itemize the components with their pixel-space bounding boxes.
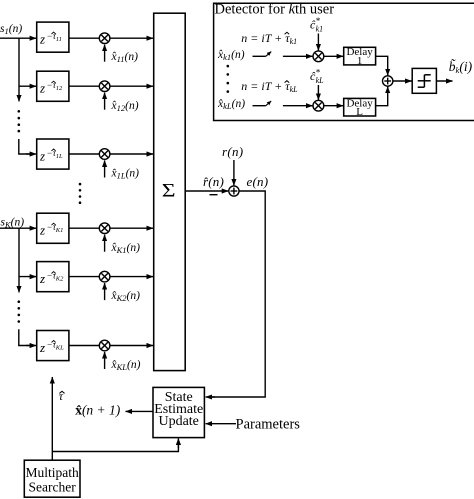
- Delay L box: [344, 98, 376, 116]
- wire multiplier to Delay 1 box: [324, 55, 343, 57]
- multiplier (circle-cross) row 12: [99, 81, 110, 92]
- svg-text:Update: Update: [158, 414, 198, 429]
- svg-text:z: z: [39, 340, 45, 355]
- wire multiplier to Delay L box: [324, 105, 343, 107]
- wire multiplier K2 to summation: [110, 276, 153, 278]
- sampler switch arm, row k1: [266, 52, 271, 57]
- svg-text:Searcher: Searcher: [28, 480, 76, 495]
- wire multiplier 12 to summation: [110, 85, 153, 87]
- output wire b_k(i): [436, 80, 452, 82]
- wire: vertical branch from sK line: [18, 228, 20, 292]
- svg-text:Parameters: Parameters: [236, 416, 301, 432]
- input wire sK(n) into delay block K1: [0, 227, 36, 229]
- svg-text:ĉ*kL: ĉ*kL: [310, 68, 324, 86]
- detector box outline (open at right edge): [214, 3, 474, 120]
- svg-text:e(n): e(n): [247, 174, 269, 189]
- svg-text:z: z: [39, 271, 45, 286]
- wire delay block 12 to multiplier 12: [69, 85, 99, 87]
- svg-text:−τKL: −τKL: [47, 340, 65, 352]
- wire sampler to multiplier, row k1: [283, 55, 313, 57]
- svg-text:n = iT + τkL: n = iT + τkL: [241, 79, 298, 94]
- wire delay block 1L to multiplier 1L: [69, 153, 99, 155]
- error adder circle: [229, 186, 239, 196]
- delay block z^-tauK2: [37, 262, 69, 292]
- multipath searcher box: [24, 460, 80, 497]
- delay block z^-tau1L: [37, 139, 69, 169]
- svg-text:x̂K1(n): x̂K1(n): [111, 242, 141, 255]
- svg-text:τ: τ: [59, 389, 64, 403]
- svg-text:Multipath: Multipath: [25, 465, 78, 480]
- svg-text:Σ: Σ: [162, 180, 176, 201]
- multiplier (circle-cross) row K1: [99, 223, 110, 234]
- minus sign at adder input: [210, 194, 218, 196]
- delay block z^-tauKL: [37, 331, 69, 361]
- svg-text:x̂KL(n): x̂KL(n): [111, 359, 141, 372]
- wire r(n) down into error adder: [233, 160, 235, 185]
- wire from x_k1(n) to sampler, row k1: [253, 55, 266, 57]
- wire x_K2(n) estimate up into multiplier K2: [104, 283, 106, 300]
- wire branch into delay block 12: [19, 85, 36, 87]
- wire tau-hat up from multipath searcher: [51, 377, 53, 460]
- svg-text:b̃k(i): b̃k(i): [449, 59, 473, 75]
- wire Delay 1 to detector adder: [376, 56, 388, 75]
- svg-text:z: z: [39, 148, 45, 163]
- svg-text:z: z: [39, 223, 45, 238]
- delay block z^-tauK1: [37, 213, 69, 243]
- svg-text:1: 1: [357, 55, 363, 67]
- svg-text:n = iT + τk1: n = iT + τk1: [241, 31, 297, 46]
- wire into delay block 1L: [19, 139, 31, 154]
- summation box: [154, 13, 186, 370]
- svg-text:x̂K2(n): x̂K2(n): [111, 290, 141, 303]
- Delay 1 box: [344, 47, 376, 65]
- wire multiplier 11 to summation: [110, 37, 153, 39]
- wire c_kL coefficient down into multiplier: [317, 85, 319, 100]
- delay block z^-tau12: [37, 71, 69, 101]
- wire c_k1 coefficient down into multiplier: [317, 34, 319, 51]
- multiplier (circle-cross) row 1L: [99, 149, 110, 160]
- svg-text:x̂k1(n): x̂k1(n): [217, 49, 245, 62]
- decision device (hard limiter) box: [412, 68, 436, 93]
- wire x_12(n) estimate up into multiplier 12: [104, 93, 106, 110]
- multiplier (circle-cross) detector row k1: [313, 51, 324, 62]
- svg-text:sK(n): sK(n): [1, 217, 25, 230]
- svg-text:z: z: [39, 81, 45, 96]
- wire e(n) feedback to state estimate update: [210, 191, 265, 397]
- svg-text:x̂1L(n): x̂1L(n): [111, 168, 140, 181]
- svg-text:−τK2: −τK2: [47, 271, 65, 283]
- wire Delay L to detector adder: [376, 87, 388, 106]
- delay block z^-tau11: [37, 22, 69, 52]
- wire branch into delay block K2: [19, 276, 36, 278]
- wire Sigma output to error adder: [185, 190, 228, 192]
- limiter step symbol: [418, 86, 425, 88]
- middle vertical dots between user groups: [79, 183, 82, 204]
- state estimate update box: [153, 387, 204, 437]
- svg-text:x̂11(n): x̂11(n): [111, 51, 139, 64]
- svg-text:L: L: [356, 106, 363, 118]
- sampler switch arm, row kL: [266, 101, 271, 106]
- multiplier (circle-cross) detector row kL: [313, 100, 324, 111]
- wire x_KL(n) estimate up into multiplier KL: [104, 352, 106, 369]
- wire multiplier K1 to summation: [110, 227, 153, 229]
- wire x_K1(n) estimate up into multiplier K1: [104, 235, 106, 252]
- multiplier (circle-cross) row KL: [99, 340, 110, 351]
- wire x(n+1) output to the left: [126, 410, 154, 412]
- svg-text:x̂kL(n): x̂kL(n): [217, 98, 245, 111]
- wire delay block K2 to multiplier K2: [69, 276, 99, 278]
- svg-text:ĉ*k1: ĉ*k1: [310, 16, 323, 34]
- vertical dots group 1: [18, 110, 21, 132]
- input wire s1(n) into delay block 11: [0, 37, 36, 39]
- detector adder circle: [383, 76, 393, 86]
- svg-text:z: z: [39, 31, 45, 46]
- svg-text:r̂(n): r̂(n): [203, 174, 224, 189]
- wire x_11(n) estimate up into multiplier 11: [104, 45, 106, 62]
- svg-text:s1(n): s1(n): [0, 23, 22, 36]
- wire: vertical branch from s1 line: [18, 38, 20, 101]
- multiplier (circle-cross) row 11: [99, 33, 110, 44]
- multiplier (circle-cross) row K2: [99, 271, 110, 282]
- svg-text:r(n): r(n): [222, 144, 243, 159]
- vertical dots group K: [18, 300, 21, 322]
- wire sampler to multiplier, row kL: [283, 105, 313, 107]
- svg-text:Detector for kth user: Detector for kth user: [215, 1, 335, 17]
- wire x_1L(n) estimate up into multiplier 1L: [104, 160, 106, 177]
- wire multiplier KL to summation: [110, 345, 153, 347]
- wire adder to decision device: [393, 80, 412, 82]
- svg-text:x̂12(n): x̂12(n): [111, 100, 139, 113]
- wire delay block 11 to multiplier 11: [69, 37, 99, 39]
- wire delay block KL to multiplier KL: [69, 345, 99, 347]
- wire from x_kL(n) to sampler, row kL: [253, 105, 266, 107]
- wire into delay block KL: [19, 329, 31, 345]
- svg-text:x̂(n + 1): x̂(n + 1): [75, 403, 121, 418]
- wire multiplier 1L to summation: [110, 153, 153, 155]
- wire delay block K1 to multiplier K1: [69, 227, 99, 229]
- detector vertical dots: [227, 65, 230, 93]
- wire Parameters input: [206, 423, 236, 425]
- wire multipath searcher to state estimate update (bottom): [52, 443, 178, 452]
